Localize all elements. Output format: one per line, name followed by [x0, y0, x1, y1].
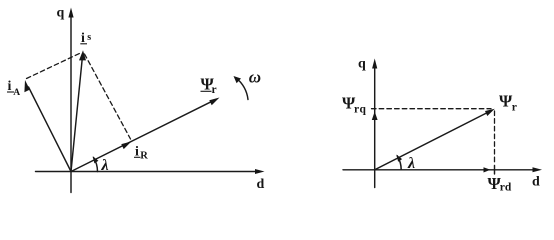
svg-text:r: r	[512, 102, 517, 114]
svg-text:i: i	[8, 79, 12, 94]
svg-text:A: A	[13, 88, 20, 98]
svg-text:q: q	[358, 57, 366, 72]
svg-text:ω: ω	[249, 68, 261, 87]
svg-text:d: d	[532, 175, 540, 190]
svg-text:r: r	[212, 84, 217, 96]
svg-text:d: d	[257, 177, 265, 192]
svg-text:q: q	[57, 6, 65, 21]
svg-text:s: s	[87, 32, 91, 43]
svg-text:R: R	[140, 151, 148, 162]
svg-text:i: i	[135, 145, 139, 160]
svg-text:i: i	[81, 31, 85, 46]
svg-text:λ: λ	[101, 157, 109, 174]
svg-text:rq: rq	[354, 104, 367, 116]
svg-text:λ: λ	[407, 155, 415, 172]
svg-text:rd: rd	[500, 182, 512, 194]
